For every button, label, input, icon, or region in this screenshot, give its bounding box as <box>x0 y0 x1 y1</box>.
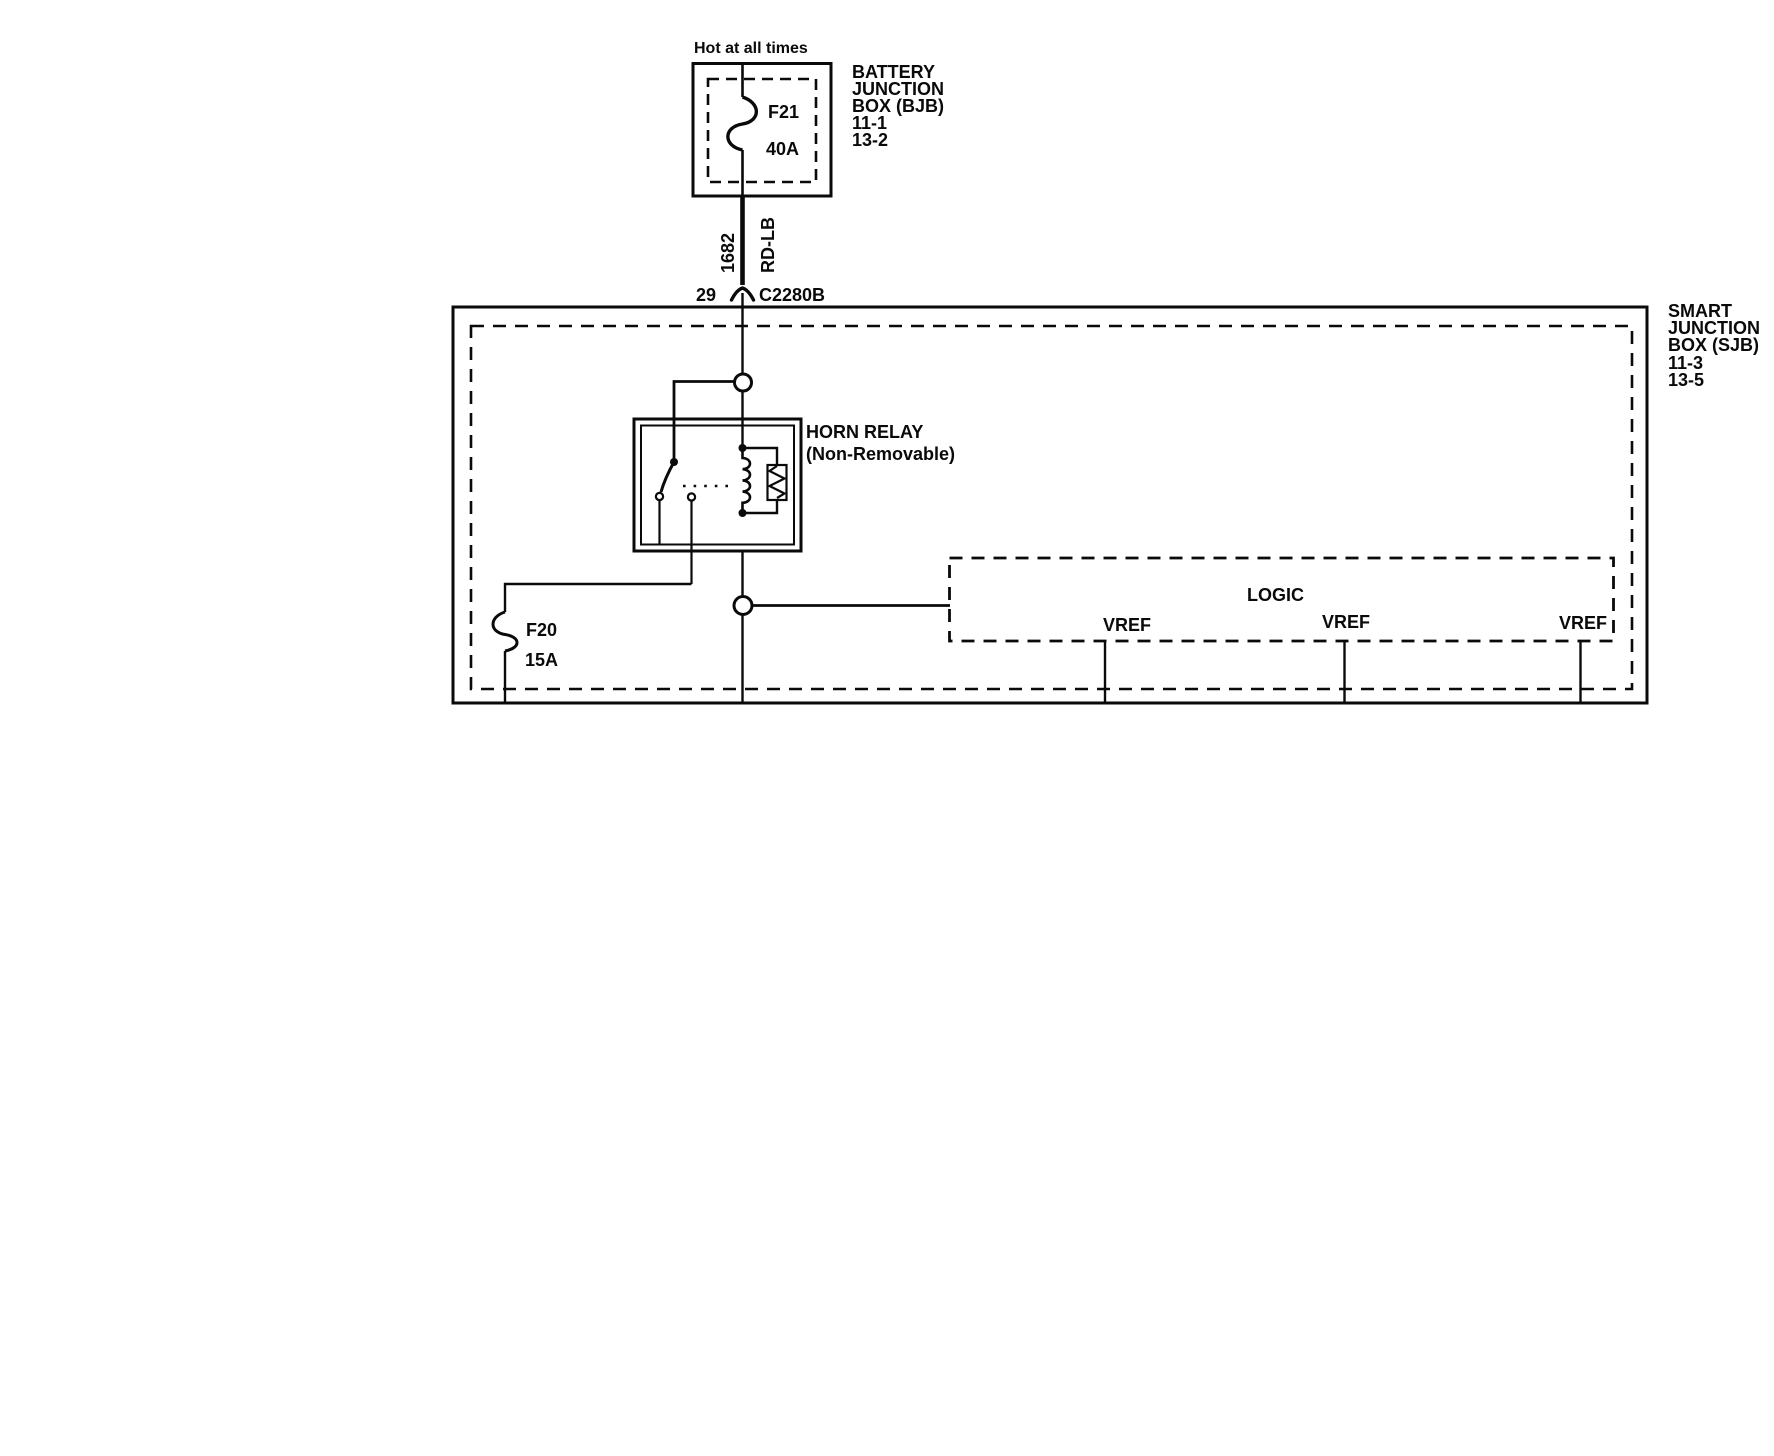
svg-text:13-5: 13-5 <box>1668 370 1704 390</box>
svg-text:VREF: VREF <box>1559 613 1607 633</box>
wire 1682 RD-LB <box>718 196 778 285</box>
wire main through SJB bottom <box>741 615 743 704</box>
relay resistor <box>768 465 787 500</box>
relay coil junction top <box>739 444 747 452</box>
svg-text:13-2: 13-2 <box>852 130 888 150</box>
relay contact pin right <box>688 493 695 584</box>
label horn relay <box>806 422 955 464</box>
svg-text:VREF: VREF <box>1322 612 1370 632</box>
wire VREF1 <box>1104 641 1106 703</box>
svg-text:29: 29 <box>696 285 716 305</box>
svg-text:F21: F21 <box>768 102 799 122</box>
svg-text:40A: 40A <box>766 139 799 159</box>
label BJB <box>852 62 944 150</box>
svg-text:RD-LB: RD-LB <box>758 217 778 273</box>
horn relay box <box>634 419 801 551</box>
relay coil junction bottom <box>739 509 747 517</box>
svg-text:BOX (SJB): BOX (SJB) <box>1668 335 1759 355</box>
svg-text:15A: 15A <box>525 650 558 670</box>
battery junction box BJB <box>693 64 831 197</box>
relay resistor branch wire <box>743 448 778 513</box>
svg-text:(Non-Removable): (Non-Removable) <box>806 444 955 464</box>
relay actuation dotted link <box>683 485 730 488</box>
fuse F20 15A <box>493 612 558 670</box>
svg-text:F20: F20 <box>526 620 557 640</box>
smart junction box SJB <box>453 307 1647 703</box>
node junction ring lower <box>734 597 752 615</box>
wire <box>741 391 743 448</box>
logic box <box>950 558 1614 641</box>
wire below fuse F21 <box>741 150 744 196</box>
relay switch arm <box>661 462 674 492</box>
wire into fuse F21 <box>741 64 744 98</box>
wire relay to fuse F20 <box>505 584 692 612</box>
wire VREF2 <box>1343 641 1345 703</box>
label SJB <box>1668 301 1760 390</box>
svg-text:LOGIC: LOGIC <box>1247 585 1304 605</box>
wire VREF3 <box>1579 641 1581 703</box>
relay contact pin left <box>656 493 663 545</box>
wire below F20 <box>504 651 506 703</box>
connector C2280B pin 29 <box>696 285 825 305</box>
wire <box>741 551 743 597</box>
svg-text:1682: 1682 <box>718 233 738 273</box>
node junction ring upper <box>735 374 752 391</box>
relay coil <box>743 448 751 513</box>
wire <box>741 293 743 374</box>
svg-text:HORN RELAY: HORN RELAY <box>806 422 923 442</box>
svg-text:VREF: VREF <box>1103 615 1151 635</box>
relay switch pivot <box>670 458 678 466</box>
fuse F21 40A <box>728 97 799 159</box>
wire to relay switch <box>674 382 734 463</box>
svg-text:C2280B: C2280B <box>759 285 825 305</box>
wire to logic <box>752 604 950 607</box>
svg-text:Hot at all times: Hot at all times <box>694 40 808 57</box>
